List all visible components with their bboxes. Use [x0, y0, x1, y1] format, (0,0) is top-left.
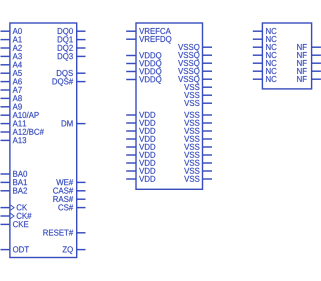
pin DM [62, 120, 86, 126]
pin BA2 [1, 188, 28, 194]
pin NC 5 [253, 60, 277, 66]
pin NF 5 [297, 76, 321, 82]
pin DQ2 [58, 45, 86, 53]
pin VSS 11 [184, 168, 212, 174]
pin VREFDQ [126, 36, 171, 44]
pin VSS 1 [184, 84, 212, 90]
pin NF 2 [297, 52, 321, 58]
pin CKE [1, 221, 29, 227]
pin NC 2 [253, 36, 277, 42]
pin VREFCA [126, 28, 171, 34]
pin A2 [1, 45, 22, 51]
pin VSS 10 [184, 160, 212, 166]
pin NC 7 [253, 76, 277, 82]
pin VSS 5 [184, 120, 212, 126]
pin NF 1 [297, 44, 321, 50]
pin A1 [1, 36, 22, 42]
pin A8 [1, 95, 22, 101]
pin DQS# [53, 78, 86, 86]
pin NC 6 [253, 68, 277, 74]
pin RAS# [53, 196, 85, 202]
pin A5 [1, 70, 22, 76]
pin NC 4 [253, 52, 277, 58]
pin ZQ [63, 246, 86, 254]
pin VDD 1 [126, 112, 155, 118]
pin VDD 3 [126, 128, 155, 134]
pin A13 [1, 137, 27, 143]
IC body U2 (power/reference block) [136, 23, 203, 189]
pin A4 [1, 62, 22, 68]
pin NC 3 [253, 44, 277, 50]
pin CK [1, 204, 28, 210]
pin VDD 8 [126, 168, 155, 174]
pin VDD 5 [126, 144, 155, 150]
pin A9 [1, 104, 22, 110]
pin A10/AP [1, 112, 39, 118]
pin DQS [57, 70, 86, 78]
pin VDDQ 4 [126, 76, 161, 84]
pin VSS 2 [184, 92, 212, 98]
pin VSSQ 2 [178, 52, 212, 60]
pin A7 [1, 87, 22, 93]
pin DQ3 [58, 53, 86, 61]
pin VSSQ 1 [178, 44, 212, 52]
pin BA1 [1, 179, 28, 185]
pin VDD 7 [126, 160, 155, 166]
pin VDD 4 [126, 136, 155, 142]
pin NF 3 [297, 60, 321, 66]
pin VDD 9 [126, 176, 155, 182]
pin VSS 3 [184, 100, 212, 106]
pin VSS 7 [184, 136, 212, 142]
pin VSSQ 4 [178, 68, 212, 76]
pin A11 [1, 120, 27, 126]
pin NF 4 [297, 68, 321, 74]
pin VSSQ 5 [178, 76, 212, 84]
pin CS# [58, 204, 85, 210]
pin WE# [56, 179, 85, 185]
pin VDD 6 [126, 152, 155, 158]
pin VSSQ 3 [178, 60, 212, 68]
IC body U1 (DDR3 address/control/data block) [10, 23, 77, 258]
pin VDD 2 [126, 120, 155, 126]
pin ODT [1, 246, 29, 252]
pin VSS 9 [184, 152, 212, 158]
pin VSS 6 [184, 128, 212, 134]
pin CAS# [53, 188, 85, 194]
pin A6 [1, 78, 22, 84]
pin VSS 4 [184, 112, 212, 118]
pin A0 [1, 28, 22, 34]
pin VSS 8 [184, 144, 212, 150]
pin VDDQ 1 [126, 52, 161, 60]
pin DQ0 [58, 28, 86, 36]
pin VDDQ 3 [126, 68, 161, 76]
pin CK# [1, 213, 32, 219]
pin A3 [1, 53, 22, 59]
pin VSS 12 [184, 176, 212, 182]
pin VDDQ 2 [126, 60, 161, 68]
pin DQ1 [58, 36, 86, 44]
pin NC 1 [253, 28, 277, 34]
pin BA0 [1, 171, 28, 177]
pin A12/BC# [1, 129, 44, 135]
IC body U3 (NC/NF block) [262, 23, 311, 89]
pin RESET# [43, 230, 85, 236]
